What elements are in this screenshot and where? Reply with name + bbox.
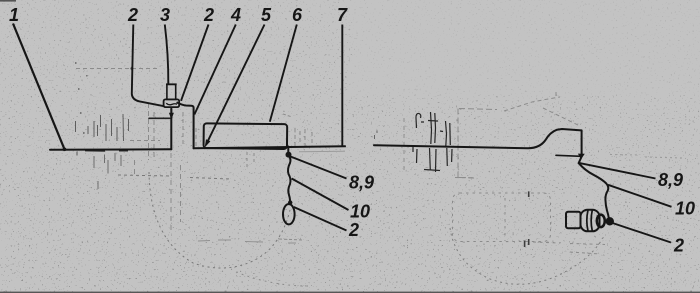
junction stem (579, 158, 582, 164)
svg-text:2: 2 (127, 5, 138, 25)
svg-text:6: 6 (292, 5, 303, 25)
leader line 2a (132, 25, 164, 107)
leader line 10 right (608, 185, 672, 207)
hose from junction to loop (288, 155, 291, 204)
cab cowl profile line (374, 129, 581, 148)
leader line 8,9 right (579, 163, 656, 179)
short dash below bend column (134, 160, 136, 178)
right cab front dashed vertical (403, 118, 405, 172)
dashes under sprayer (570, 252, 600, 254)
pump barrel (581, 210, 600, 232)
hose down from junction (579, 163, 609, 218)
arch tail dotted (236, 272, 308, 286)
cowl short line (149, 117, 170, 119)
svg-text:10: 10 (675, 199, 695, 219)
darker squiggle cluster on right view cowl (413, 112, 452, 172)
hood line crossing dot (130, 67, 133, 70)
leader line 8,9 left (289, 156, 346, 179)
faint horizontal near bend (130, 140, 160, 142)
dashes right of box (295, 128, 312, 146)
leader line 2 right (613, 223, 672, 243)
right view door dash-dot rectangle (458, 109, 497, 179)
bottom scan border (0, 292, 700, 293)
svg-text:7: 7 (337, 5, 348, 25)
nozzle stem (167, 84, 176, 99)
nozzle stem cap (166, 83, 177, 85)
flow arrow under nozzle (170, 109, 172, 119)
door dark ticks (525, 191, 529, 247)
bumper dotted line (118, 175, 231, 179)
door mid dotted vertical (504, 198, 506, 241)
dotted row mid bottom (198, 240, 296, 243)
hose-oval knot (288, 200, 292, 204)
barrel rib 1 (587, 210, 588, 231)
front panel dash cluster (76, 114, 129, 141)
line blobs (85, 149, 128, 152)
ghost line under left main line (299, 150, 345, 153)
dashes below box (247, 152, 254, 168)
left end tick right view (375, 131, 378, 141)
extra ticks (413, 122, 443, 152)
svg-text:10: 10 (350, 202, 370, 222)
junction arrowhead right view (578, 154, 585, 160)
leader 5 arrowhead (205, 139, 211, 147)
svg-text:2: 2 (203, 5, 214, 25)
svg-text:1: 1 (9, 5, 19, 25)
right wheel dotted arc (450, 228, 604, 284)
dotted below oval (279, 239, 303, 240)
leader line 1 (13, 24, 65, 150)
leader line 7 (341, 25, 343, 147)
leader line 3 (165, 25, 169, 85)
base mark (424, 170, 440, 171)
leader line 6 (270, 25, 297, 122)
junction blob leader1 (63, 148, 67, 152)
svg-text:3: 3 (160, 5, 170, 25)
leader line 2c left (294, 207, 347, 231)
hose loop oval (283, 204, 295, 224)
cowl dash under line (76, 152, 78, 156)
windshield pillar vertical (581, 130, 583, 156)
top-left scan smear (0, 0, 16, 2)
step to pillar (177, 103, 193, 149)
barrel rib 2 (591, 210, 592, 231)
hose connector blob (606, 217, 614, 225)
squiggle hook (416, 113, 421, 128)
leader line 10 left (292, 179, 349, 211)
right dashes near labels (610, 155, 683, 159)
svg-text:8,9: 8,9 (658, 170, 683, 190)
dashes under cowl (149, 103, 155, 160)
upper door dashes (455, 177, 473, 179)
faint background marks group (76, 69, 684, 287)
junction dot at hose start (286, 152, 292, 158)
squiggle double bar 1 (428, 112, 438, 144)
nozzle smile (166, 103, 177, 105)
svg-text:2: 2 (673, 236, 684, 256)
leader line 5 (208, 25, 265, 141)
main cowl line left segment (50, 148, 171, 151)
sprayer pump body (566, 210, 605, 232)
box right edge drop (287, 147, 289, 157)
leader line 2b (181, 25, 209, 101)
dashes right of door (533, 242, 605, 245)
main cowl line right segment (194, 146, 345, 148)
hood dotted line left view (76, 68, 160, 70)
right view roof dashes (504, 92, 580, 126)
dash shelf line (556, 155, 581, 156)
svg-text:8,9: 8,9 (349, 173, 374, 193)
left wheel arch dotted (149, 172, 290, 268)
svg-text:5: 5 (261, 5, 272, 25)
dashes below nozzle column (171, 153, 181, 232)
pillar area faint verticals (183, 112, 196, 146)
pump nose (597, 215, 605, 227)
dashes near box corner (283, 114, 292, 117)
riser to nozzle (170, 109, 172, 150)
svg-text:2: 2 (348, 220, 359, 240)
cab front specks (75, 62, 88, 134)
svg-text:4: 4 (230, 5, 241, 25)
front panel ticks below line (94, 153, 121, 189)
leader line 4 (194, 25, 235, 115)
nozzle body (164, 84, 180, 107)
right view lower door dotted rect (453, 193, 551, 242)
squiggles below line (417, 148, 453, 172)
pump rear block (566, 212, 581, 228)
squiggle double bar 2 (446, 121, 451, 146)
blob tail (605, 220, 611, 223)
wiper motor box (204, 123, 288, 149)
